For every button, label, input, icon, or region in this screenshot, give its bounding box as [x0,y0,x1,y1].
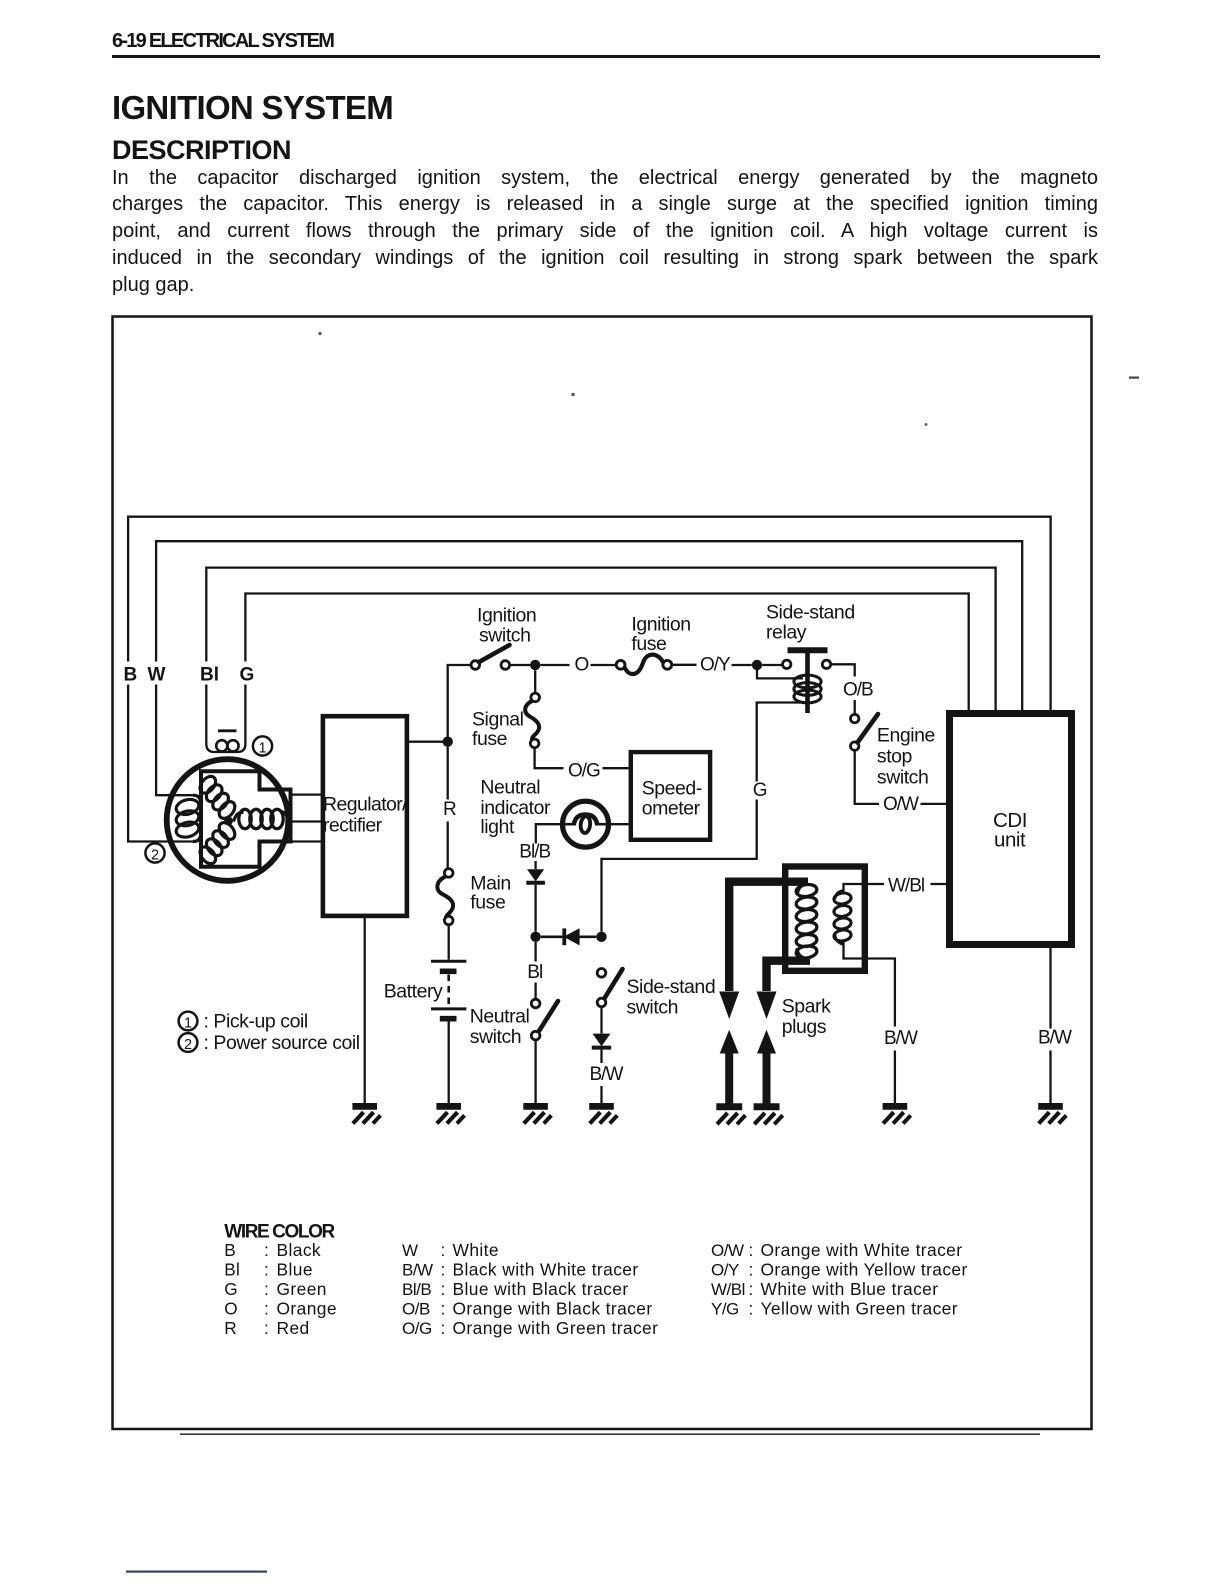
svg-text:W: W [148,665,166,686]
svg-text:Yellow with Green tracer: Yellow with Green tracer [761,1299,958,1319]
svg-text:O/G: O/G [568,761,600,782]
svg-text:W/Bl: W/Bl [711,1280,745,1299]
subtitle [112,137,291,164]
CDI unit box [950,714,1072,945]
magneto source winding (lower left) [216,820,238,843]
svg-text:Neutral: Neutral [480,777,540,799]
ignition coil primary winding [795,883,817,898]
engine stop switch [851,714,859,722]
svg-text::: : [441,1299,446,1319]
magneto pick-up winding (upper left) [216,799,238,822]
svg-text::: : [441,1279,446,1299]
svg-text:White with Blue tracer: White with Blue tracer [761,1279,939,1299]
svg-text:Red: Red [277,1318,310,1338]
svg-text::: : [441,1240,446,1260]
svg-text:switch: switch [479,625,530,647]
pick-up coil lead loop [206,685,245,753]
svg-text::: : [264,1240,269,1260]
svg-text:Neutral: Neutral [470,1006,530,1028]
magneto stator core outline [201,771,291,867]
svg-text:Orange: Orange [277,1299,337,1319]
scan speck [318,332,321,335]
wire switch to junction [510,664,531,666]
svg-text:: Pick-up coil: : Pick-up coil [204,1011,308,1033]
ground (spark plug 1) [716,1103,742,1110]
power source coil windings [175,797,201,817]
svg-text:light: light [480,816,515,838]
spark plug 1 upper arrow [719,992,739,1020]
diode D1 (neutral light) [527,869,544,881]
magneto charge coil (right) [239,809,251,828]
svg-text:R: R [224,1318,237,1338]
ignition coil secondary winding [833,892,852,905]
neutral indicator light bulb [563,801,609,847]
svg-text:G: G [753,780,767,801]
svg-text:B: B [224,1240,236,1260]
svg-text:switch: switch [470,1026,521,1048]
wire R segment [447,747,449,800]
svg-text:B/W: B/W [1038,1028,1072,1049]
wire ignition switch feed corner [448,665,471,742]
svg-text:Speed-: Speed- [642,778,702,800]
svg-text::: : [441,1318,446,1338]
svg-text:switch: switch [627,997,678,1019]
svg-text:1: 1 [258,740,266,756]
svg-text::: : [264,1318,269,1338]
wire Bl/B segment [534,861,536,869]
svg-text:fuse: fuse [470,892,505,914]
description paragraph [112,165,1098,300]
svg-text:B/W: B/W [590,1064,624,1085]
svg-text:Green: Green [277,1279,327,1299]
svg-text:O/B: O/B [843,680,873,701]
svg-text:plugs: plugs [782,1016,827,1038]
svg-text:O/W: O/W [883,794,919,815]
svg-text:Orange with White tracer: Orange with White tracer [761,1240,963,1260]
diagram frame [113,317,1092,1430]
wire segment [600,1050,602,1063]
main fuse [444,869,453,878]
svg-text:G: G [224,1279,238,1299]
wire secondary bottom to B/W ground [844,941,895,1027]
wire signal fuse to O/G [535,748,564,769]
svg-text:2: 2 [151,847,159,863]
svg-text:B/W: B/W [402,1261,433,1280]
svg-text:O/B: O/B [402,1300,430,1319]
svg-text::: : [264,1279,269,1299]
wire W lower segment to magneto [156,685,193,796]
wire O/Y junction to relay coil [757,665,803,678]
wire junction down to signal fuse [534,670,536,693]
wire junction bar [541,935,597,938]
wire engine stop switch to CDI [855,750,879,804]
svg-text:W: W [402,1241,418,1260]
svg-text:Spark: Spark [782,995,831,1017]
magneto center node [224,817,233,826]
wire battery to ground [448,1022,450,1105]
title [112,91,393,124]
ground (CDI unit) [1038,1103,1063,1110]
high-tension lead to spark plug 1 (thick) [729,882,808,991]
svg-text:Blue: Blue [277,1260,313,1280]
magneto rotor circle [167,759,289,881]
wire B harness (magneto B terminal to CDI unit) [128,517,1051,710]
svg-text:Battery: Battery [384,981,443,1003]
ground (spark plug 2) [754,1103,780,1110]
svg-text:stop: stop [877,746,913,768]
ground (regulator) [352,1103,377,1110]
svg-text:Bl: Bl [527,962,542,983]
svg-text::: : [264,1260,269,1280]
wire G down to side-stand branch [602,800,757,932]
marker 1 (pick-up coil) [253,736,272,755]
wire relay coil to G wire [757,703,806,782]
svg-text:O/G: O/G [402,1319,432,1338]
svg-text:relay: relay [766,622,807,644]
svg-text:R: R [443,799,456,820]
ignition coil box [785,867,865,971]
node junction right of diode D3 [596,932,606,942]
svg-text:Bl: Bl [200,665,219,686]
wire segment [540,664,569,666]
wire magneto to regulator middle [288,820,321,822]
svg-text:rectifier: rectifier [323,815,383,837]
ground (ignition coil secondary) [883,1103,908,1110]
wire lamp to speedometer [609,823,631,825]
high-tension lead to spark plug 2 (thick) [767,961,811,991]
svg-text::: : [749,1299,754,1319]
wire diode to junction [534,885,536,932]
svg-text:2: 2 [184,1037,192,1053]
svg-text::: : [749,1240,754,1260]
svg-text:O: O [224,1299,238,1319]
wire magneto to regulator bottom [291,840,322,842]
side-stand switch [597,969,606,978]
wire neutral switch to ground [534,1040,536,1105]
pick-up coil windings [216,740,227,751]
svg-text:Side-stand: Side-stand [627,976,716,998]
svg-text:O/Y: O/Y [700,655,731,676]
svg-text::: : [749,1260,754,1280]
wire relay contact to engine stop switch [831,664,855,676]
marker 1 legend (pick-up coil) [179,1012,198,1031]
ignition switch [471,661,480,670]
svg-text:Side-stand: Side-stand [766,602,855,624]
signal fuse [531,693,540,702]
wire regulator to R node [409,741,448,743]
ground (neutral switch) [523,1103,548,1110]
svg-text:Engine: Engine [877,725,935,747]
wire segment [732,664,752,666]
svg-text:switch: switch [877,767,928,789]
svg-text:ometer: ometer [642,798,701,820]
wire G harness (pick-up coil to CDI unit) [245,594,968,711]
header rule [112,55,1100,59]
node junction R [443,737,453,747]
node junction left of diode D3 [530,932,540,942]
wire segment [672,664,697,666]
svg-text:Bl: Bl [224,1260,240,1280]
svg-text:fuse: fuse [472,728,507,750]
svg-text::: : [264,1299,269,1319]
svg-text:fuse: fuse [631,633,666,655]
svg-text:Ignition: Ignition [477,605,536,627]
diode D3 (between Bl and side-stand) [564,928,580,945]
wire regulator bottom to ground [364,918,366,1105]
svg-text::: : [441,1260,446,1280]
node junction at side-stand relay [752,660,762,670]
marker 2 legend (power source coil) [179,1033,198,1052]
side-stand relay coil [794,675,821,688]
svg-text:B: B [124,665,138,686]
svg-text:B/W: B/W [884,1028,918,1049]
battery [431,960,466,963]
wire lamp left lead [536,824,562,843]
svg-text:Black: Black [277,1240,322,1260]
wire B lower segment to magneto [128,685,193,842]
footer mark [126,1571,267,1573]
diode D2 (side-stand) [593,1034,611,1047]
side-stand relay contact circles [783,660,791,668]
node junction at signal fuse tap [530,660,540,670]
header: page number + section [112,31,333,51]
spark plug 2 lower arrow [757,1030,776,1054]
wire side-stand switch to diode [600,1007,602,1034]
wire CDI bottom B/W to ground [1049,948,1051,1029]
wire O/G to speedometer [603,767,631,769]
svg-text:O/W: O/W [711,1241,744,1260]
svg-text:1: 1 [184,1015,192,1031]
power source coil bracket [193,795,201,841]
regulator/rectifier box [323,716,407,916]
wire segment [591,664,617,666]
spark plug 2 upper arrow [757,992,777,1020]
svg-text:Bl/B: Bl/B [519,842,550,863]
svg-text:Blue with Black tracer: Blue with Black tracer [453,1279,629,1299]
speedometer box [631,752,710,840]
svg-text::: : [749,1279,754,1299]
svg-text:unit: unit [994,829,1026,852]
wire Bl harness (pick-up coil to CDI unit) [206,568,995,710]
svg-text:Orange with Green tracer: Orange with Green tracer [453,1318,659,1338]
svg-text:: Power source coil: : Power source coil [204,1032,360,1054]
svg-text:Orange with Yellow tracer: Orange with Yellow tracer [761,1260,968,1280]
svg-text:White: White [453,1240,499,1260]
svg-text:O/Y: O/Y [711,1261,739,1280]
ignition fuse [616,660,625,669]
wire Bl segment [534,942,536,962]
marker 2 (power source coil) [145,843,164,862]
svg-text:Y/G: Y/G [711,1300,739,1319]
svg-text:Black with White tracer: Black with White tracer [453,1260,639,1280]
neutral switch [531,999,540,1008]
svg-text:W/Bl: W/Bl [888,876,924,897]
wire W harness (magneto W terminal to CDI unit) [156,541,1022,710]
spark plug 1 lower arrow [720,1030,739,1054]
side-stand relay armature bar [788,647,828,653]
wire fuse to battery [448,925,450,960]
wire secondary top to W/Bl [844,884,869,893]
svg-text:Orange with Black tracer: Orange with Black tracer [453,1299,653,1319]
wire magneto to regulator top [291,793,322,795]
svg-text:Regulator/: Regulator/ [323,794,408,816]
ground (battery) [436,1103,461,1110]
ground (side-stand switch) [589,1103,614,1110]
svg-text:G: G [240,665,255,686]
svg-text:Bl/B: Bl/B [402,1280,431,1299]
svg-text:O: O [575,655,589,676]
